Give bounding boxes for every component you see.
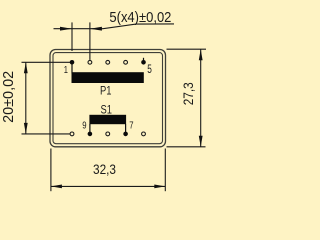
leader to text shelf [103, 24, 136, 29]
pin 5 (filled) [141, 60, 146, 65]
svg-text:5(x4)±0,02: 5(x4)±0,02 [109, 9, 171, 26]
winding bar P1 [72, 72, 144, 83]
dimension top: 5(x4)±0,02 pin pitch [54, 22, 175, 60]
svg-text:1: 1 [64, 65, 69, 76]
arrowhead left at pin2 ext [90, 27, 102, 31]
dimension line [25, 62, 27, 134]
arrowhead left [51, 185, 62, 189]
transformer body inner outline [53, 53, 163, 144]
extension line body bottom [167, 146, 206, 148]
dimension line [51, 185, 165, 187]
pin 2 [88, 60, 92, 64]
extension line body right [164, 149, 166, 192]
arrowhead right at pin1 ext [60, 27, 72, 31]
winding bar S1 [89, 115, 126, 124]
pin 1 (filled) [70, 60, 75, 65]
pin 9 (filled) [88, 132, 93, 137]
pin 6 [142, 132, 146, 136]
arrowhead up [24, 62, 28, 73]
text shelf line [136, 23, 174, 25]
wire pin1 stem to P1 bar [71, 62, 73, 73]
pin 4 [124, 60, 128, 64]
wire S1 bar to pin7 stem [125, 124, 127, 134]
pin 10 [70, 132, 74, 136]
extension line bottom row [22, 133, 70, 135]
svg-text:P1: P1 [100, 85, 112, 97]
wire pin5 tick [143, 58, 145, 63]
pin 8 [106, 132, 110, 136]
svg-text:20±0,02: 20±0,02 [1, 71, 17, 123]
arrowhead right [154, 185, 165, 189]
transformer body outer outline [50, 50, 166, 147]
arrowhead up [199, 49, 203, 60]
dimension left: 20±0,02 row pitch [22, 62, 71, 134]
extension line top row [22, 61, 71, 63]
extension line pin1 [71, 22, 73, 51]
svg-text:32,3: 32,3 [93, 161, 116, 177]
svg-text:27,3: 27,3 [180, 82, 196, 105]
dimension line [200, 49, 202, 147]
pin 7 (filled) [123, 132, 128, 137]
svg-text:7: 7 [129, 119, 133, 131]
pin 3 [106, 60, 110, 64]
extension line pin2 [89, 22, 91, 60]
extension line body left [50, 149, 52, 192]
svg-text:9: 9 [82, 119, 86, 131]
arrowhead down [24, 123, 28, 134]
wire S1 bar to pin9 stem [89, 124, 91, 134]
arrowhead down [199, 136, 203, 147]
svg-text:5: 5 [147, 62, 152, 76]
svg-text:S1: S1 [101, 104, 113, 116]
dimension bottom: 32,3 body width [51, 149, 165, 192]
dimension line [54, 28, 104, 30]
extension line body top [167, 48, 207, 50]
dimension right: 27,3 body height [167, 49, 207, 147]
